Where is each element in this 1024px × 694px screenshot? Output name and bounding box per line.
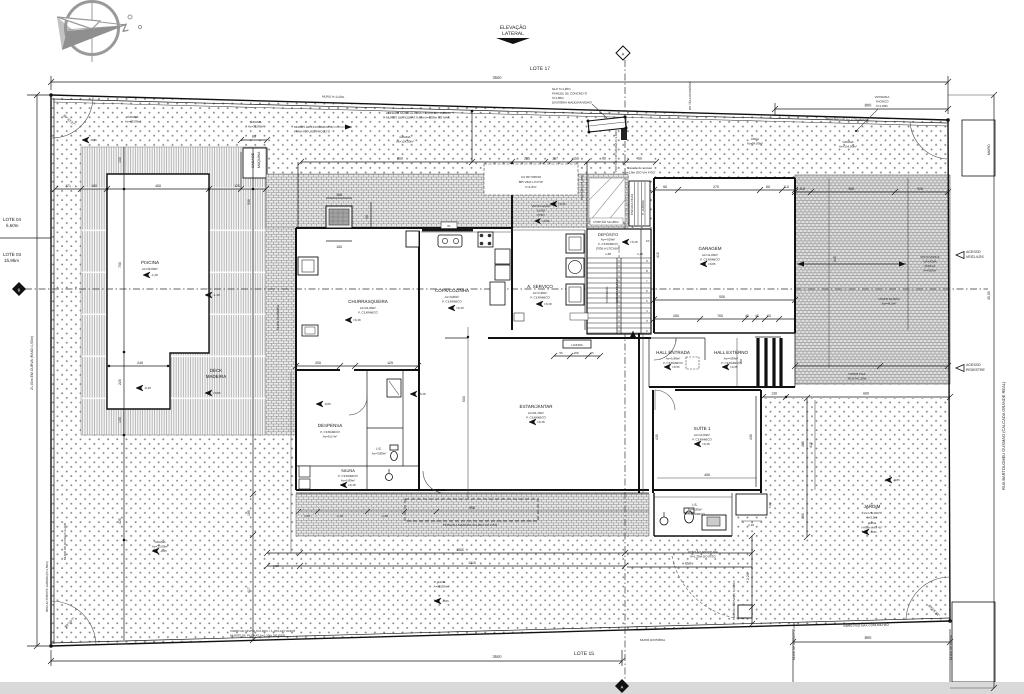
svg-text:Ac=6,57m²: Ac=6,57m² <box>323 435 338 439</box>
svg-text:DIVISÓRIA MADEIRA/VIDRO: DIVISÓRIA MADEIRA/VIDRO <box>552 101 593 105</box>
svg-text:390: 390 <box>848 187 854 191</box>
svg-text:2,20: 2,20 <box>746 573 750 580</box>
svg-text:PAVER FILA: PAVER FILA <box>849 372 866 376</box>
svg-text:DESPENSA: DESPENSA <box>318 423 343 428</box>
svg-text:15,95m: 15,95m <box>4 258 19 263</box>
svg-text:h=1,8m²: h=1,8m² <box>525 185 536 189</box>
svg-text:-1,40: -1,40 <box>151 273 158 277</box>
svg-text:21,00m EM CURVA (RAIO=1,50m): 21,00m EM CURVA (RAIO=1,50m) <box>30 336 34 390</box>
svg-text:Ac=5,89m²: Ac=5,89m² <box>341 479 356 483</box>
svg-text:80: 80 <box>766 185 770 189</box>
svg-text:+0,40: +0,40 <box>630 240 638 244</box>
svg-text:A: A <box>622 52 625 57</box>
svg-text:+0,40: +0,40 <box>456 306 464 310</box>
svg-text:RUA BARTOLOMEU GUSMAO (CALCADA: RUA BARTOLOMEU GUSMAO (CALCADA GRANDE RE… <box>1001 381 1006 490</box>
svg-text:45: 45 <box>755 314 759 318</box>
svg-text:MAQUINA: MAQUINA <box>257 151 261 168</box>
svg-text:DEPÓSITO: DEPÓSITO <box>598 232 619 237</box>
svg-text:-0,05: -0,05 <box>324 402 331 406</box>
svg-text:PISCINA: PISCINA <box>141 260 159 265</box>
svg-text:SUÍTE 1: SUÍTE 1 <box>693 426 711 431</box>
svg-text:1,70: 1,70 <box>337 514 343 518</box>
svg-text:90: 90 <box>663 185 667 189</box>
svg-text:P. CERÂMICO: P. CERÂMICO <box>320 430 340 434</box>
svg-text:950: 950 <box>469 506 475 510</box>
svg-text:190: 190 <box>801 513 805 519</box>
svg-text:h=2,0m: h=2,0m <box>867 516 878 520</box>
svg-text:415: 415 <box>801 441 805 447</box>
svg-text:GLP h=1,20m: GLP h=1,20m <box>552 87 571 91</box>
svg-text:760: 760 <box>717 314 723 318</box>
svg-text:-0,05: -0,05 <box>442 599 449 603</box>
svg-text:GRAMA: GRAMA <box>127 115 138 119</box>
svg-text:Ac=44,5m²: Ac=44,5m² <box>882 302 897 306</box>
svg-text:+0,40: +0,40 <box>544 302 552 306</box>
svg-text:GARAGEM: GARAGEM <box>698 246 721 251</box>
svg-text:GRAMA: GRAMA <box>250 120 261 124</box>
svg-text:h=1,8m IGO VIA PISO: h=1,8m IGO VIA PISO <box>625 171 656 175</box>
svg-text:MURO H=2,20m: MURO H=2,20m <box>322 95 345 100</box>
svg-text:ALINDOR MURO ALTURA = 2,00m DO: ALINDOR MURO ALTURA = 2,00m DO JARDIM <box>386 111 451 115</box>
svg-text:LIXEIRA: LIXEIRA <box>571 343 583 347</box>
svg-text:455: 455 <box>636 157 642 161</box>
svg-text:VENTILAÇÃO: VENTILAÇÃO <box>531 204 551 208</box>
svg-text:COPA/COZINHA: COPA/COZINHA <box>435 288 469 293</box>
svg-text:PEDESTRE: PEDESTRE <box>966 368 986 372</box>
svg-text:I.S.: I.S. <box>692 503 697 507</box>
svg-text:MUROS DE PEDRAS 0,40m h=2,00m: MUROS DE PEDRAS 0,40m h=2,00m SO MAX <box>386 116 450 120</box>
svg-text:417: 417 <box>247 587 251 593</box>
svg-text:90: 90 <box>365 215 369 219</box>
svg-text:275: 275 <box>713 185 719 189</box>
svg-text:Ac=61,46m²: Ac=61,46m² <box>528 411 544 415</box>
svg-text:+0,40: +0,40 <box>702 442 710 446</box>
svg-text:10: 10 <box>646 239 650 243</box>
svg-text:+0,40: +0,40 <box>348 483 356 487</box>
svg-text:+0,05: +0,05 <box>213 391 221 395</box>
svg-text:+0,40: +0,40 <box>418 392 426 396</box>
svg-text:MURO DE DIVISA h=2,20m: MURO DE DIVISA h=2,20m <box>792 622 796 660</box>
svg-text:400: 400 <box>704 473 710 477</box>
svg-text:P. JARDIM: P. JARDIM <box>641 200 645 215</box>
svg-text:escada de acesso: escada de acesso <box>628 166 653 170</box>
svg-text:P. CERÂMICO: P. CERÂMICO <box>358 311 378 315</box>
svg-text:IGREJA: IGREJA <box>925 264 936 268</box>
svg-text:430: 430 <box>749 434 753 440</box>
svg-text:550: 550 <box>719 295 725 299</box>
svg-text:Ac=75,16m²: Ac=75,16m² <box>864 511 880 515</box>
svg-text:Ac=32,00m²: Ac=32,00m² <box>142 267 158 271</box>
svg-text:ESCADA 15x17,2: ESCADA 15x17,2 <box>615 279 619 303</box>
svg-text:A. SERVIÇO: A. SERVIÇO <box>527 284 553 289</box>
svg-text:155: 155 <box>573 157 579 161</box>
svg-text:415: 415 <box>809 442 813 448</box>
svg-text:100: 100 <box>336 245 342 249</box>
svg-text:B: B <box>18 288 21 293</box>
svg-text:157: 157 <box>552 157 558 161</box>
svg-text:h=1,60m: h=1,60m <box>876 104 888 108</box>
svg-text:SAUNA: SAUNA <box>341 468 355 473</box>
svg-text:h=1,20m DO PISO: h=1,20m DO PISO <box>690 555 716 559</box>
svg-text:-1,40: -1,40 <box>213 293 220 297</box>
svg-text:45,00: 45,00 <box>987 291 991 300</box>
svg-text:DA NOVA: DA NOVA <box>923 260 936 264</box>
svg-text:330: 330 <box>247 199 251 205</box>
svg-text:LATERAL: LATERAL <box>502 31 524 37</box>
svg-text:220: 220 <box>118 379 122 385</box>
svg-text:180: 180 <box>91 184 97 188</box>
svg-text:P. CERÂMICO: P. CERÂMICO <box>338 474 358 478</box>
svg-text:+0,35: +0,35 <box>558 202 566 206</box>
svg-text:HALL EXTERNO: HALL EXTERNO <box>714 350 749 355</box>
svg-text:80: 80 <box>252 135 256 139</box>
svg-text:Ac=5,28m²: Ac=5,28m² <box>533 291 548 295</box>
svg-text:250: 250 <box>315 361 321 365</box>
svg-text:885 VIDE LO PVP: 885 VIDE LO PVP <box>519 180 544 184</box>
svg-text:Ac=3,80m²: Ac=3,80m² <box>372 452 387 456</box>
svg-text:PORTÃO ABERTURA: PORTÃO ABERTURA <box>688 550 718 554</box>
svg-text:90: 90 <box>602 157 606 161</box>
svg-text:P. CERÂMICO: P. CERÂMICO <box>685 512 705 516</box>
svg-text:LOTE 15: LOTE 15 <box>574 651 594 657</box>
svg-text:DH TELA DIVISÓRIA: DH TELA DIVISÓRIA <box>688 82 692 110</box>
svg-text:Ac=41,06m²: Ac=41,06m² <box>702 253 718 257</box>
svg-text:grama: grama <box>437 580 446 584</box>
svg-text:425: 425 <box>118 518 122 524</box>
svg-text:FAIXA MAX 45°: FAIXA MAX 45° <box>861 526 883 530</box>
svg-text:285: 285 <box>524 157 530 161</box>
svg-text:MUROS DE PEDRAS h=1,10m DO PIS: MUROS DE PEDRAS h=1,10m DO PISO <box>230 634 286 638</box>
svg-text:Ac=33,60m²: Ac=33,60m² <box>152 545 168 549</box>
svg-text:LOTE 17: LOTE 17 <box>530 66 550 72</box>
svg-text:JARDIM: JARDIM <box>864 504 881 509</box>
svg-text:MURO DE DIVISA: MURO DE DIVISA <box>949 635 953 660</box>
svg-text:HALL ENTRADA: HALL ENTRADA <box>656 350 690 355</box>
svg-text:95: 95 <box>590 351 594 355</box>
svg-text:P. CERÂMICO: P. CERÂMICO <box>598 242 618 246</box>
svg-text:FILA h=1,10m: FILA h=1,10m <box>848 377 867 381</box>
svg-text:+0,35: +0,35 <box>542 219 550 223</box>
svg-text:(SOB A ESCADA): (SOB A ESCADA) <box>596 247 620 251</box>
svg-text:CORRIMÃO: CORRIMÃO <box>605 286 609 303</box>
svg-text:MURO DIVISÓRIA: MURO DIVISÓRIA <box>276 305 280 330</box>
svg-text:LOTE 04: LOTE 04 <box>3 217 22 222</box>
svg-text:-0,05: -0,05 <box>90 138 97 142</box>
svg-text:ÁREA: ÁREA <box>751 137 759 141</box>
svg-text:200: 200 <box>739 359 743 364</box>
svg-text:+0,40: +0,40 <box>353 318 361 322</box>
svg-text:Ac=63,00m²: Ac=63,00m² <box>125 120 141 124</box>
svg-text:MURO DIVISÓRIA: MURO DIVISÓRIA <box>640 638 665 642</box>
svg-text:GRAMA: GRAMA <box>842 140 853 144</box>
svg-text:ACESSO: ACESSO <box>966 363 981 367</box>
svg-text:PAVER BLOCO: PAVER BLOCO <box>878 297 900 301</box>
svg-text:VERDURA: VERDURA <box>875 95 890 99</box>
svg-text:DECK: DECK <box>210 368 223 373</box>
svg-text:1,50: 1,50 <box>304 514 310 518</box>
svg-text:VIDRO DE DIVISA h=2,10m + 1,10: VIDRO DE DIVISA h=2,10m + 1,10m DO VIDRO <box>230 629 296 633</box>
svg-text:P. CERÂMICO: P. CERÂMICO <box>700 258 720 262</box>
svg-text:185: 185 <box>247 510 251 516</box>
svg-text:MUROS DE FECHAMENTO: MUROS DE FECHAMENTO <box>294 125 333 129</box>
svg-text:600: 600 <box>863 392 869 396</box>
svg-text:400: 400 <box>155 184 161 188</box>
svg-text:CHURRASQUEIRA: CHURRASQUEIRA <box>348 299 388 304</box>
svg-text:-0,05: -0,05 <box>893 478 900 482</box>
svg-text:CX RETORNO: CX RETORNO <box>521 175 542 179</box>
svg-text:110: 110 <box>799 187 805 191</box>
svg-text:PARA FUTURO PROJETO: PARA FUTURO PROJETO <box>294 130 331 134</box>
svg-text:600: 600 <box>462 396 466 402</box>
svg-text:1315: 1315 <box>468 561 476 565</box>
svg-text:RECUO FRENTE JARDIM (R=1,50m): RECUO FRENTE JARDIM (R=1,50m) <box>45 561 49 612</box>
svg-text:PORTÃO SERVIÇO h=1,80m: PORTÃO SERVIÇO h=1,80m <box>732 580 736 620</box>
svg-text:700: 700 <box>118 262 122 268</box>
svg-text:430: 430 <box>655 434 659 440</box>
svg-text:100: 100 <box>118 157 122 163</box>
svg-text:MURO DE DIVISA h=2,20m: MURO DE DIVISA h=2,20m <box>63 522 67 560</box>
svg-text:A=92,00m²: A=92,00m² <box>434 585 449 589</box>
svg-text:PAREDE DE CONCRETO: PAREDE DE CONCRETO <box>552 92 588 96</box>
svg-text:ESCADA 15x19: ESCADA 15x19 <box>630 193 634 215</box>
svg-text:MURO: MURO <box>987 144 991 155</box>
svg-text:h=9,00m²: h=9,00m² <box>924 269 937 273</box>
svg-text:800: 800 <box>865 635 872 640</box>
svg-text:01: 01 <box>447 224 451 228</box>
svg-text:1365: 1365 <box>456 548 464 552</box>
svg-text:3500: 3500 <box>493 654 503 659</box>
svg-text:GRAMA: GRAMA <box>399 135 410 139</box>
svg-text:129: 129 <box>387 361 393 365</box>
svg-text:Ac=154,00m²: Ac=154,00m² <box>839 145 857 149</box>
svg-text:150: 150 <box>336 193 342 197</box>
svg-text:TRONCO: TRONCO <box>876 100 890 104</box>
svg-text:15x10: 15x10 <box>537 209 546 213</box>
svg-text:415: 415 <box>833 256 837 262</box>
svg-text:Ac=4,89m²: Ac=4,89m² <box>724 357 739 361</box>
svg-text:1,10: 1,10 <box>637 252 643 256</box>
svg-text:ACESSO: ACESSO <box>966 250 981 254</box>
svg-text:100: 100 <box>573 351 578 355</box>
svg-text:ELEVAÇÃO: ELEVAÇÃO <box>500 24 527 31</box>
svg-text:h=1,80m: h=1,80m <box>552 96 564 100</box>
svg-text:-0,05: -0,05 <box>160 549 167 553</box>
svg-text:ESTAR/JANTAR: ESTAR/JANTAR <box>519 404 553 409</box>
svg-text:PORTÃO DE GRAMA h=1,80m: PORTÃO DE GRAMA h=1,80m <box>614 130 618 172</box>
svg-text:PISO: PISO <box>537 213 545 217</box>
svg-text:100: 100 <box>118 417 122 423</box>
svg-text:Ac=4,09m²: Ac=4,09m² <box>601 238 616 242</box>
svg-text:Ac=4,80m²: Ac=4,80m² <box>688 508 703 512</box>
svg-text:PORTÃO h=1,80m: PORTÃO h=1,80m <box>580 174 584 200</box>
svg-text:Ac=14,09m²: Ac=14,09m² <box>694 433 710 437</box>
svg-text:LOTE 03: LOTE 03 <box>3 252 22 257</box>
svg-text:+0,35: +0,35 <box>730 365 738 369</box>
svg-text:200: 200 <box>673 314 679 318</box>
svg-text:240: 240 <box>137 361 143 365</box>
svg-text:+0,05: +0,05 <box>708 262 716 266</box>
svg-text:45: 45 <box>745 314 749 318</box>
svg-text:VISTA VERDE: VISTA VERDE <box>920 255 939 259</box>
svg-text:171: 171 <box>65 184 71 188</box>
svg-text:GRAMA: GRAMA <box>154 540 165 544</box>
svg-text:1,50: 1,50 <box>382 514 388 518</box>
svg-text:5,60m: 5,60m <box>6 223 19 228</box>
svg-text:-0,40: -0,40 <box>144 386 151 390</box>
svg-text:125: 125 <box>234 184 240 188</box>
svg-text:Ac=5,98m²: Ac=5,98m² <box>666 357 681 361</box>
svg-text:310: 310 <box>917 187 923 191</box>
svg-text:+0,35: +0,35 <box>672 365 680 369</box>
svg-text:P. CERÂMICO: P. CERÂMICO <box>442 300 462 304</box>
svg-text:1,00: 1,00 <box>768 502 772 508</box>
svg-text:P. CERÂMICO: P. CERÂMICO <box>530 296 550 300</box>
svg-text:I.S.: I.S. <box>376 447 381 451</box>
svg-text:110: 110 <box>783 185 789 189</box>
svg-text:60: 60 <box>767 314 771 318</box>
svg-text:+0,40: +0,40 <box>537 420 545 424</box>
svg-text:3500: 3500 <box>493 75 503 80</box>
svg-text:800: 800 <box>865 103 872 108</box>
svg-text:PORTÃO 5x1,80m: PORTÃO 5x1,80m <box>594 220 619 224</box>
svg-text:grama: grama <box>868 521 877 525</box>
svg-text:Ac=21,80m²: Ac=21,80m² <box>360 306 376 310</box>
svg-text:1,10: 1,10 <box>748 523 754 527</box>
svg-text:415: 415 <box>656 252 660 258</box>
svg-text:A: A <box>621 685 624 690</box>
svg-text:Ac=84,00m²: Ac=84,00m² <box>747 142 763 146</box>
svg-text:Ac=9,86m²: Ac=9,86m² <box>445 295 460 299</box>
svg-text:1,30: 1,30 <box>605 252 611 256</box>
svg-text:95: 95 <box>559 351 563 355</box>
svg-text:PÉRGOLA MADEIRA 9x1,20m DO PIS: PÉRGOLA MADEIRA 9x1,20m DO PISO <box>443 523 498 527</box>
svg-text:VEÍCULOS: VEÍCULOS <box>966 254 984 259</box>
svg-text:650: 650 <box>685 562 691 566</box>
svg-text:Ac=124,00m²: Ac=124,00m² <box>396 140 414 144</box>
svg-text:P. CERÂMICO: P. CERÂMICO <box>692 438 712 442</box>
svg-text:MADEIRA: MADEIRA <box>206 374 227 379</box>
svg-text:130: 130 <box>771 392 777 396</box>
svg-text:850: 850 <box>397 157 403 161</box>
svg-text:-0,05: -0,05 <box>870 530 877 534</box>
svg-text:Ac=33,60m²: Ac=33,60m² <box>248 125 264 129</box>
